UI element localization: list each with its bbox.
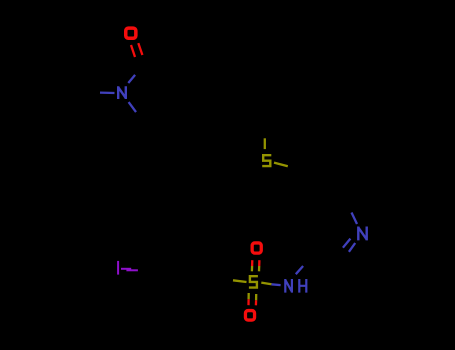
bond S1-CH2 vertical (S half) (264, 138, 266, 149)
bond I-aryl step 2 (126, 269, 137, 271)
atom I iodine (117, 261, 119, 275)
atom O2 sulfonyl top oxygen (252, 243, 261, 253)
bond S2=O2 stroke 1 S half (251, 266, 254, 271)
atom N1 lactam nitrogen (118, 86, 126, 99)
bond S2=O3 stroke 2 O half (255, 300, 258, 305)
bond S2=O2 stroke 2 O half (258, 260, 260, 266)
bond S2=O3 stroke 1 S half (247, 293, 249, 299)
bond C=O stroke 2 (138, 43, 142, 55)
bond I-aryl step 1 (121, 268, 131, 270)
bond S2=O3 stroke 1 O half (247, 299, 249, 305)
bond S2-aryl (S half) (233, 280, 247, 282)
bond S2=O2 stroke 1 O half (251, 260, 253, 266)
atom S2 sulfonyl sulfur (249, 276, 258, 287)
atom O3 sulfonyl bottom oxygen (245, 311, 254, 321)
atom H of NH (299, 279, 306, 293)
bond N1-carbonyl C (N half) (128, 75, 135, 83)
bond N2-C upper (N half) (352, 213, 358, 225)
bond S1-aryl (S half) (274, 163, 288, 167)
bond N1-CH2 (N half) (129, 102, 136, 112)
atom N2 pyridine nitrogen (358, 227, 366, 241)
bond C=O stroke 1 (131, 45, 135, 57)
bond S2=O2 stroke 2 S half (258, 266, 261, 271)
bond S2-N3 (S half) (261, 283, 271, 285)
bond N2=C stroke 1 (N half) (343, 239, 351, 248)
atom O1 carbonyl oxygen (126, 28, 136, 38)
atom N3 sulfonamide nitrogen (285, 279, 292, 293)
bond N1-methyl (N half) (100, 91, 115, 94)
atom S1 thioether sulfur (262, 155, 271, 166)
bond N2=C stroke 2 (N half) (349, 243, 355, 252)
bond S2-N3 (N half) (271, 283, 280, 286)
bond N3-aryl (N half) (296, 266, 303, 274)
bond S2=O3 stroke 2 S half (255, 294, 257, 300)
